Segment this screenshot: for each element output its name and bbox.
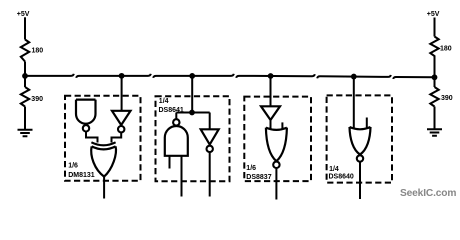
svg-text:+5V: +5V [427,11,440,18]
svg-text:DM8131: DM8131 [68,172,95,179]
svg-text:1/6: 1/6 [246,165,256,172]
svg-text:390: 390 [441,95,453,102]
svg-text:390: 390 [31,96,43,103]
svg-text:SeekIC.com: SeekIC.com [400,188,456,199]
svg-text:1/4: 1/4 [329,166,339,173]
svg-text:DS8641: DS8641 [159,107,184,114]
svg-text:1/4: 1/4 [159,98,169,105]
svg-text:180: 180 [440,46,452,53]
svg-text:180: 180 [32,48,44,55]
svg-text:DS8640: DS8640 [329,174,354,181]
svg-text:+5V: +5V [17,11,30,18]
svg-text:DS8837: DS8837 [246,174,271,181]
svg-text:1/6: 1/6 [68,163,78,170]
